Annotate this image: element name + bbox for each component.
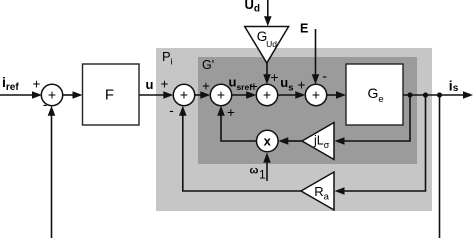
wire omega_1 into multiplier X bbox=[263, 153, 271, 181]
svg-text:+: + bbox=[217, 86, 225, 102]
wire G_Ud apex to S4 bbox=[263, 63, 271, 84]
svg-text:+: + bbox=[298, 77, 306, 92]
svg-text:+: + bbox=[33, 76, 41, 91]
block R_a triangle bbox=[301, 172, 334, 210]
svg-text:+: + bbox=[48, 86, 56, 102]
wire S2 to S3 bbox=[195, 91, 211, 99]
svg-text:F: F bbox=[105, 87, 114, 104]
wire S5 to G_e bbox=[327, 91, 346, 99]
wire S4 to S5 bbox=[278, 91, 306, 99]
svg-text:iref: iref bbox=[2, 74, 19, 93]
summing junction S4 bbox=[256, 84, 277, 105]
svg-text:u: u bbox=[146, 77, 154, 92]
svg-text:E: E bbox=[300, 22, 308, 36]
svg-text:+: + bbox=[263, 86, 271, 102]
junction node C bbox=[437, 92, 442, 97]
svg-text:+: + bbox=[202, 79, 210, 94]
svg-text:1: 1 bbox=[259, 168, 266, 182]
wire junction A down to jL_sigma bbox=[335, 95, 411, 145]
wire G_e output to i_s bbox=[403, 91, 473, 99]
wire R_a feedback into S2 from below bbox=[179, 106, 301, 191]
wire i_ref to summing junction S1 bbox=[0, 91, 42, 99]
junction node A bbox=[407, 92, 412, 97]
block F current controller bbox=[83, 64, 140, 125]
svg-text:+: + bbox=[161, 77, 169, 92]
svg-text:+: + bbox=[271, 70, 279, 85]
svg-text:ω: ω bbox=[250, 165, 259, 177]
wire S3 to S4 bbox=[232, 91, 257, 99]
svg-text:-: - bbox=[169, 103, 174, 118]
svg-text:Ud: Ud bbox=[245, 0, 261, 14]
wire jL_sigma to multiplier X bbox=[278, 137, 302, 145]
svg-text:G': G' bbox=[202, 58, 214, 72]
wire E into S5 bbox=[312, 29, 320, 84]
block jL_sigma triangle bbox=[302, 123, 334, 160]
summing junction S1 bbox=[41, 84, 62, 105]
junction node B bbox=[423, 92, 428, 97]
svg-text:+: + bbox=[180, 86, 188, 102]
block G_e machine bbox=[346, 64, 403, 125]
wire F to S2 bbox=[139, 91, 173, 99]
summing junction S5 bbox=[305, 84, 326, 105]
svg-text:-: - bbox=[322, 69, 327, 84]
G' machine model region box bbox=[198, 57, 417, 164]
svg-text:+: + bbox=[227, 105, 235, 120]
P_i plant region box bbox=[156, 48, 432, 211]
svg-text:x: x bbox=[264, 134, 272, 149]
wire feedback from bottom edge up into S1 bbox=[48, 106, 56, 238]
wire multiplier X to S3 bbox=[217, 106, 256, 141]
summing junction S2 bbox=[173, 84, 194, 105]
svg-text:+: + bbox=[312, 86, 320, 102]
wire U_d into G_Ud bbox=[264, 0, 272, 26]
svg-text:is: is bbox=[449, 77, 459, 94]
multiplier X bbox=[257, 130, 279, 152]
block G_Ud triangle bbox=[245, 27, 289, 64]
summing junction S3 bbox=[210, 84, 231, 105]
wire junction B down to R_a bbox=[335, 95, 426, 195]
wire S1 to block F bbox=[63, 91, 83, 99]
wire junction C down to bottom edge bbox=[439, 95, 441, 238]
